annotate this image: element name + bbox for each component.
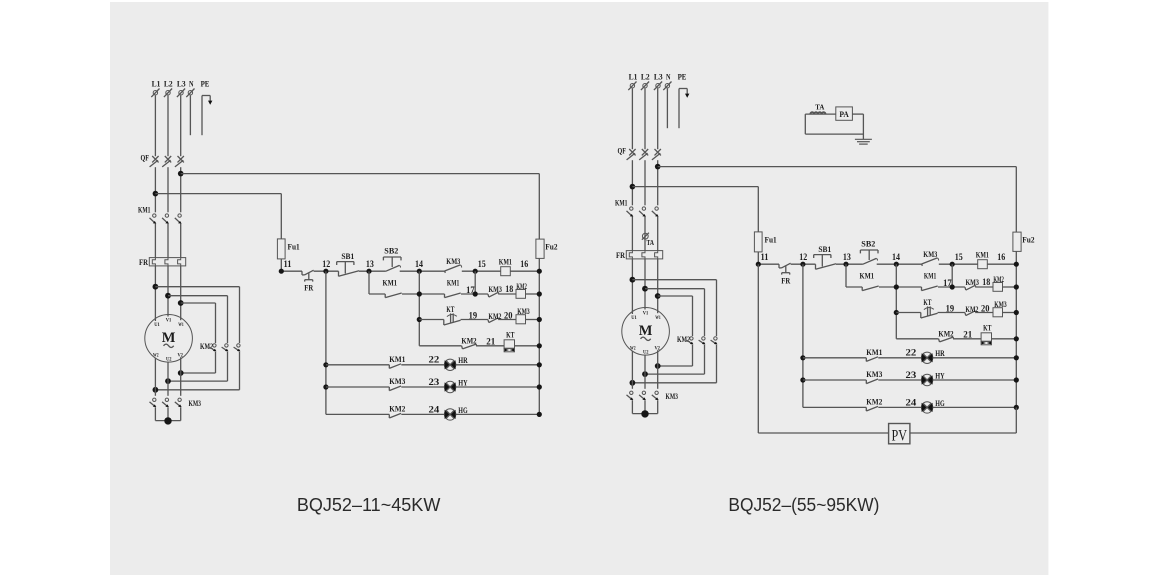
svg-text:BQJ52–11~45KW: BQJ52–11~45KW [297,495,441,515]
svg-text:TA: TA [647,238,655,247]
svg-text:BQJ52–(55~95KW): BQJ52–(55~95KW) [728,495,879,515]
svg-text:PV: PV [892,428,908,445]
svg-text:PA: PA [839,110,849,119]
svg-text:TA: TA [815,103,825,112]
